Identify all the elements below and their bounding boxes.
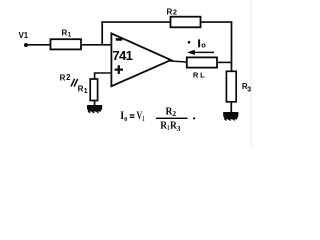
svg-text:2: 2 [173, 10, 177, 17]
svg-text:R: R [193, 70, 199, 79]
svg-text:V1: V1 [19, 31, 29, 40]
svg-text:L: L [200, 70, 205, 79]
node V1 [19, 31, 29, 47]
svg-text:R: R [167, 8, 173, 17]
ground (right) [223, 112, 238, 121]
wire R2 to right rail [201, 21, 233, 23]
arrow Io (points left) [187, 50, 214, 55]
svg-text:R: R [62, 29, 68, 38]
wire top to R2 [101, 21, 170, 23]
svg-text:1: 1 [68, 32, 72, 39]
wire noninverting input [95, 73, 112, 80]
svg-text:o: o [201, 41, 206, 50]
op-amp U1 741 [111, 33, 171, 86]
resistor RL [187, 57, 217, 79]
wire feedback tap up [101, 21, 103, 45]
formula Io = V1 R2/(R1R3) [120, 106, 195, 133]
svg-text:3: 3 [247, 86, 251, 93]
wire RL to right rail [217, 61, 232, 63]
svg-text:741: 741 [112, 48, 132, 63]
resistor R1 [51, 29, 82, 50]
svg-text:o: o [124, 114, 127, 123]
svg-text:1: 1 [143, 114, 145, 123]
svg-text:1: 1 [84, 88, 88, 95]
wire V1 to R1 [26, 44, 51, 46]
current Io label [188, 39, 207, 49]
wire R3 to ground [230, 102, 232, 113]
wire R2||R1 to ground [94, 101, 96, 107]
resistor R2 [167, 8, 201, 28]
ground (left) [87, 105, 102, 113]
resistor R2||R1 [60, 73, 98, 100]
scan streak [250, 0, 253, 146]
svg-text:2: 2 [66, 73, 71, 82]
svg-text:R: R [78, 85, 84, 94]
svg-text:2: 2 [172, 109, 176, 118]
svg-text:R: R [60, 74, 66, 83]
svg-text:3: 3 [177, 124, 181, 133]
wire right rail down [231, 21, 233, 71]
wire R1 to inverting input [81, 44, 112, 46]
wire op-amp output to RL [170, 61, 187, 62]
resistor R3 [226, 71, 251, 102]
